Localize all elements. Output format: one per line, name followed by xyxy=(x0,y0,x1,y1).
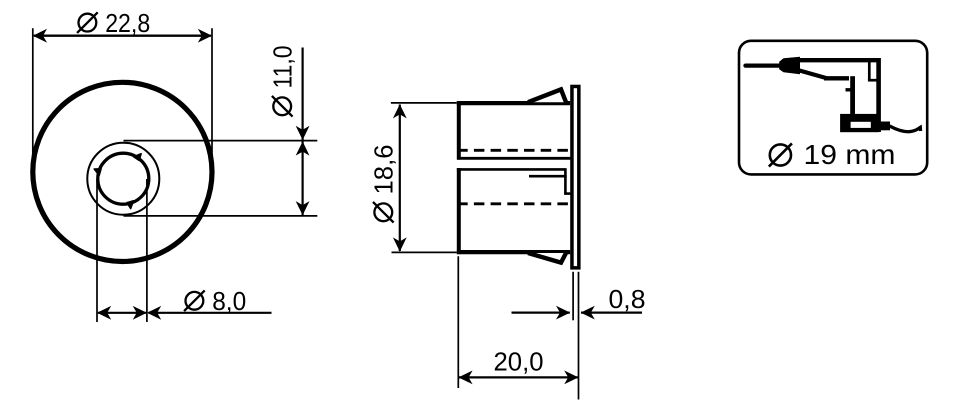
drill right edge xyxy=(876,58,881,132)
power cord xyxy=(890,126,921,132)
extension line left (Ø22,8) xyxy=(32,28,34,172)
body left edge upper half xyxy=(457,101,461,160)
body left edge lower half xyxy=(457,168,461,254)
middle circle Ø11 xyxy=(87,143,159,215)
drill vent notch xyxy=(868,61,871,80)
leader line left (0,8) xyxy=(512,312,570,314)
drill chuck xyxy=(779,57,800,74)
anti-rotation tab at -57 deg xyxy=(134,154,142,161)
drill base label window xyxy=(851,122,871,128)
extension line top (Ø18,6) xyxy=(391,102,457,104)
drill nose underside xyxy=(800,71,827,79)
body bottom edge xyxy=(457,250,570,254)
inner cut line xyxy=(529,175,567,178)
drill underside bar xyxy=(824,76,849,80)
arrowhead outside top (Ø11,0) xyxy=(296,126,310,140)
flange plate xyxy=(572,86,579,267)
drill bit xyxy=(746,63,787,67)
body top edge xyxy=(457,101,570,105)
arrowhead right (Ø8,0) xyxy=(133,306,147,320)
dimension line Ø22,8 xyxy=(34,35,211,37)
arrowhead bottom (Ø18,6) xyxy=(393,237,407,251)
arrowhead inside top (Ø11,0) xyxy=(296,141,310,155)
top retaining barb xyxy=(528,89,566,102)
leader line right (0,8) xyxy=(581,312,642,314)
svg-text:18,6: 18,6 xyxy=(369,145,399,195)
extension line left (0,8) xyxy=(572,272,574,321)
arrowhead left (0,8) xyxy=(556,306,570,320)
hidden line upper (dashed) xyxy=(457,149,570,152)
arrowhead right (20,0) xyxy=(564,371,578,385)
svg-text:11,0: 11,0 xyxy=(267,46,297,89)
dimension line Ø8,0 xyxy=(98,312,146,314)
label Ø 19 mm xyxy=(769,139,896,170)
extension line bottom (Ø18,6) xyxy=(392,251,457,253)
extension line bottom (Ø11,0) xyxy=(124,215,318,217)
arrowhead left (20,0) xyxy=(458,371,472,385)
label Ø 8,0 xyxy=(184,286,246,316)
slot lower edge xyxy=(457,168,566,171)
extension line left (Ø8,0) xyxy=(96,179,98,322)
dimension line Ø18,6 xyxy=(399,105,401,252)
slot upper edge xyxy=(457,157,572,160)
label Ø 11,0 xyxy=(267,46,297,117)
anti-rotation tab at 196 deg xyxy=(94,169,101,176)
drill trigger cap xyxy=(846,88,856,91)
extension line right (Ø8,0) xyxy=(146,179,148,322)
svg-text:0,8: 0,8 xyxy=(609,284,646,314)
label Ø 18,6 xyxy=(369,145,399,223)
outer flange circle (front view) xyxy=(33,82,212,261)
arrowhead left (Ø22,8) xyxy=(33,29,47,43)
leader line (Ø8,0) xyxy=(149,312,272,314)
drill handle front edge xyxy=(850,76,855,116)
drill body top edge xyxy=(798,58,877,62)
extension line right (Ø22,8) xyxy=(211,28,213,172)
extension line left (20,0) xyxy=(457,256,459,388)
label Ø 22,8 xyxy=(77,8,150,38)
arrowhead top (Ø18,6) xyxy=(393,104,407,118)
arrowhead bottom (Ø11,0) xyxy=(296,201,310,215)
bottom retaining barb xyxy=(528,253,566,263)
slot step vertical xyxy=(564,168,567,193)
dimension line 20,0 xyxy=(459,376,578,378)
svg-text:22,8: 22,8 xyxy=(105,8,150,38)
arrowhead left (Ø8,0) xyxy=(97,306,111,320)
arrowhead right (0,8) xyxy=(581,306,595,320)
svg-text:20,0: 20,0 xyxy=(494,346,544,376)
arrowhead right (Ø22,8) xyxy=(198,29,212,43)
extension line top (Ø11,0) xyxy=(124,140,318,142)
slot step horizontal xyxy=(564,192,571,195)
svg-text:19 mm: 19 mm xyxy=(804,139,896,170)
extension line right (0,8) xyxy=(578,272,580,400)
leader arrowhead (Ø8,0) xyxy=(147,306,161,320)
power cord stub xyxy=(877,122,891,131)
drill base xyxy=(840,114,878,132)
tool info box xyxy=(739,41,927,175)
inner bore circle Ø8 xyxy=(98,153,149,204)
hidden line lower (dashed) xyxy=(457,202,571,205)
dimension line Ø11,0 xyxy=(302,48,304,216)
anti-rotation tab at 73.5 deg xyxy=(127,201,133,209)
svg-text:8,0: 8,0 xyxy=(212,286,246,316)
